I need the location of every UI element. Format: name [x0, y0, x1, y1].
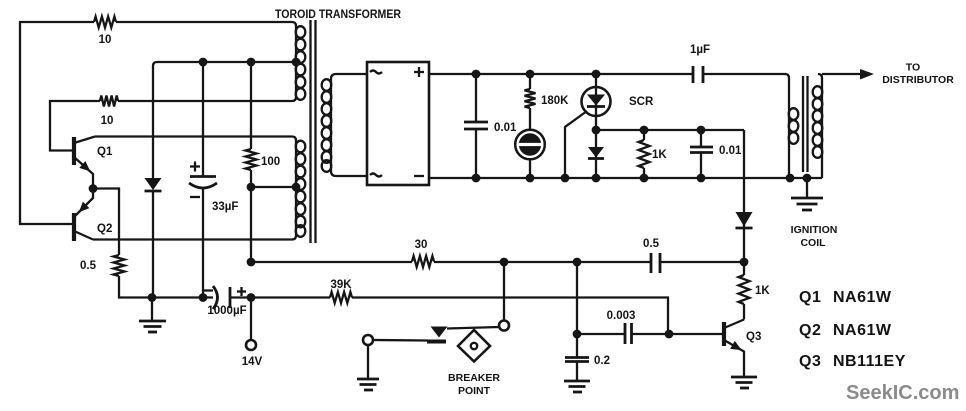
ground (0.2 cap) — [564, 381, 590, 392]
node 0.01 top — [472, 70, 481, 79]
svg-text:10: 10 — [99, 34, 112, 46]
node SCR anode — [592, 70, 601, 79]
wire secondary to rectifier bottom — [331, 171, 367, 176]
diode D2 below SCR — [588, 130, 604, 178]
wire 39K to Q3 base column — [352, 298, 668, 335]
node 180K bottom rail — [526, 174, 535, 183]
wire junction to 0.5 resistor — [93, 189, 119, 256]
svg-text:39K: 39K — [330, 279, 352, 291]
svg-text:100: 100 — [261, 156, 280, 168]
ignition coil primary — [785, 74, 798, 178]
rectifier bridge U1 — [367, 62, 429, 185]
svg-text:30: 30 — [415, 239, 428, 251]
node tap on winding — [292, 183, 301, 192]
svg-text:0.5: 0.5 — [80, 260, 97, 272]
node mid bus at 100 resistor — [247, 58, 256, 67]
node SCR gate on rail — [561, 174, 570, 183]
capacitor C 0.01 (snubber) — [690, 130, 742, 178]
ignition coil core — [803, 76, 808, 172]
terminal 14V — [242, 340, 263, 368]
wire to distributor with arrow — [822, 62, 954, 87]
breaker point assembly — [363, 262, 509, 345]
wire rail A middle segment — [434, 261, 651, 263]
wire Q1 collector to toroid lower winding top — [95, 137, 296, 141]
transistor Q1 — [74, 137, 113, 189]
resistor R 100 — [246, 62, 281, 187]
wire 0.5cap column — [576, 262, 578, 334]
node coil primary bottom — [786, 174, 795, 183]
ground (left rail) — [139, 298, 166, 333]
diode D3 to rail A — [736, 130, 753, 262]
svg-text:IGNITION: IGNITION — [791, 224, 838, 236]
node rail B left junction 33uF — [199, 293, 208, 302]
svg-text:BREAKER: BREAKER — [448, 372, 500, 384]
wire secondary to rectifier top — [331, 74, 367, 79]
node rail B at 14V column — [247, 293, 256, 302]
trigger diode lamp D4 — [515, 130, 545, 178]
toroid secondary winding — [322, 79, 332, 172]
svg-text:180K: 180K — [541, 95, 569, 107]
node 1K top — [640, 126, 649, 135]
wire top-left loop to Q2 base — [20, 22, 94, 224]
wire rectifier plus output bus — [429, 73, 693, 75]
breaker point label — [448, 372, 500, 397]
svg-text:1K: 1K — [755, 285, 770, 297]
wire tap to lower winding — [251, 186, 296, 188]
transistor Q3 — [724, 320, 761, 378]
svg-text:0.2: 0.2 — [594, 355, 610, 367]
wire second 10 to toroid upper winding bottom — [118, 97, 296, 101]
node rail A left — [247, 258, 256, 267]
svg-text:SeekIC.com: SeekIC.com — [846, 382, 959, 404]
resistor R 1K (Q3 collector) — [739, 262, 771, 320]
wire Q2 collector to toroid lower winding bottom — [93, 236, 296, 240]
capacitor C 33uF — [189, 62, 238, 298]
wire base bus right segment — [632, 333, 723, 335]
svg-text:1µF: 1µF — [690, 44, 710, 56]
svg-text:SCR: SCR — [629, 96, 654, 108]
node base bus left — [573, 330, 582, 339]
ignition coil label — [791, 224, 838, 249]
svg-text:Q3: Q3 — [799, 353, 821, 370]
svg-text:NA61W: NA61W — [833, 289, 892, 306]
toroid upper primary winding — [296, 26, 306, 100]
SCR — [565, 74, 654, 178]
svg-text:Q2: Q2 — [799, 322, 821, 339]
node 0.01 snubber bottom rail — [697, 174, 706, 183]
wire base bus left segment — [577, 333, 625, 335]
wire rail A left segment — [251, 261, 412, 263]
transistor Q2 — [74, 189, 112, 242]
wire rail B right segment with 39K — [251, 296, 330, 298]
node 180K top — [526, 70, 535, 79]
svg-text:0.5: 0.5 — [643, 238, 660, 250]
svg-text:NA61W: NA61W — [833, 322, 892, 339]
resistor R 10 (top) — [94, 17, 116, 47]
capacitor C 1000uF — [204, 286, 251, 317]
wire 0.5 resistor to ground rail — [119, 276, 213, 298]
svg-text:NB111EY: NB111EY — [833, 353, 906, 370]
svg-text:33µF: 33µF — [212, 201, 238, 213]
svg-text:POINT: POINT — [458, 385, 491, 397]
wire top to toroid upper winding — [116, 22, 296, 26]
svg-text:Q1: Q1 — [97, 146, 113, 158]
wire rail A right segment — [660, 261, 744, 263]
svg-text:DISTRIBUTOR: DISTRIBUTOR — [882, 74, 954, 86]
node mid bus at 33uF — [199, 58, 208, 67]
resistor R 39K — [330, 279, 352, 303]
ground (ignition coil) — [791, 178, 823, 210]
node 1K bottom rail — [640, 174, 649, 183]
diode D1 — [145, 178, 162, 298]
svg-text:COIL: COIL — [800, 237, 826, 249]
svg-text:10: 10 — [101, 115, 114, 127]
node coil ground junction — [803, 174, 812, 183]
svg-text:Q2: Q2 — [97, 223, 112, 235]
svg-text:Q3: Q3 — [746, 331, 761, 343]
capacitor C 0.01 (filter) — [464, 74, 517, 178]
resistor R 30 — [412, 239, 434, 267]
node 100 resistor tap junction — [247, 183, 256, 192]
capacitor C 0.5 — [643, 238, 660, 273]
svg-text:0.01: 0.01 — [494, 122, 517, 134]
node 0.01 bottom — [472, 174, 481, 183]
svg-text:1000µF: 1000µF — [207, 305, 246, 317]
capacitor C 0.2 — [565, 334, 610, 381]
svg-text:1K: 1K — [652, 149, 667, 161]
resistor R 180K — [525, 74, 570, 130]
node breaker drop — [500, 258, 509, 267]
svg-text:0.003: 0.003 — [607, 310, 636, 322]
node Q1/Q2 emitter junction — [89, 184, 98, 193]
node 0.5cap column top — [573, 258, 582, 267]
node SCR cathode junction — [592, 126, 601, 135]
transistor type list — [799, 289, 906, 370]
svg-text:14V: 14V — [242, 356, 263, 368]
node D2 cathode rail — [592, 174, 601, 183]
svg-text:TOROID TRANSFORMER: TOROID TRANSFORMER — [275, 9, 402, 21]
ground (Q3 emitter) — [731, 377, 757, 388]
wire mid bus y62 — [153, 62, 296, 178]
wire rectifier minus ground rail — [429, 177, 822, 179]
node ground junction — [148, 293, 157, 302]
capacitor C 0.003 — [607, 310, 636, 344]
wire from second 10 resistor down to Q1 base — [50, 101, 100, 151]
svg-text:Q1: Q1 — [799, 289, 821, 306]
svg-text:0.01: 0.01 — [719, 145, 742, 157]
wire 100 tap down to rail A — [250, 187, 252, 262]
node 0.01 snubber top — [697, 126, 706, 135]
toroid lower primary winding — [296, 141, 306, 237]
ground (breaker) — [357, 345, 379, 390]
resistor R 10 (second) — [100, 96, 118, 128]
wire 14V column — [250, 298, 252, 341]
ignition coil secondary — [813, 74, 823, 178]
capacitor C 1uF — [690, 44, 786, 83]
resistor R 1K (snubber) — [639, 130, 668, 178]
svg-text:TO: TO — [906, 62, 920, 74]
toroid core — [311, 20, 316, 243]
node rail A right junction — [740, 258, 749, 267]
wire snubber bus y130 — [596, 129, 744, 131]
breaker cam symbol — [458, 330, 490, 362]
node mid bus tap on upper winding — [292, 58, 301, 67]
node Q3 base junction — [665, 330, 674, 339]
resistor R 0.5 — [80, 255, 125, 276]
